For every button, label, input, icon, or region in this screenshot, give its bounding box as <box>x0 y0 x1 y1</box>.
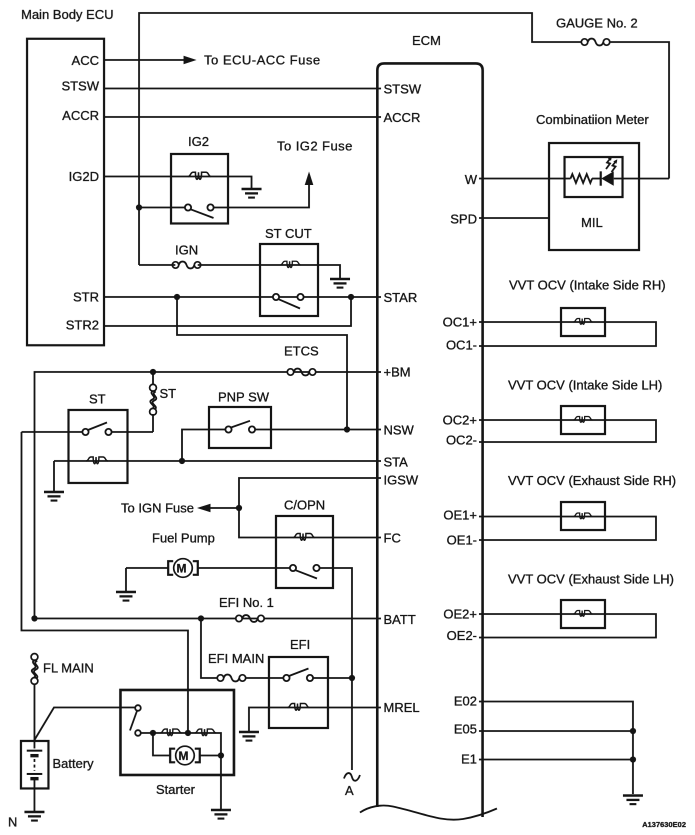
svg-text:A: A <box>345 783 354 798</box>
svg-text:C/OPN: C/OPN <box>284 497 325 512</box>
svg-text:ACC: ACC <box>72 53 99 68</box>
svg-text:STR: STR <box>73 289 99 304</box>
svg-text:GAUGE No. 2: GAUGE No. 2 <box>556 16 638 31</box>
svg-text:IG2: IG2 <box>188 134 209 149</box>
svg-text:VVT OCV (Intake Side LH): VVT OCV (Intake Side LH) <box>508 378 662 393</box>
svg-text:NSW: NSW <box>383 423 414 438</box>
svg-text:OE1-: OE1- <box>447 533 477 548</box>
svg-text:BATT: BATT <box>383 612 415 627</box>
svg-text:Starter: Starter <box>156 782 196 797</box>
svg-text:Battery: Battery <box>52 756 94 771</box>
svg-text:STA: STA <box>383 455 408 470</box>
svg-text:M: M <box>178 749 188 763</box>
svg-text:E1: E1 <box>461 752 477 767</box>
svg-text:Fuel Pump: Fuel Pump <box>152 530 215 545</box>
svg-text:Main Body ECU: Main Body ECU <box>21 7 113 22</box>
svg-text:STR2: STR2 <box>66 317 99 332</box>
svg-text:W: W <box>465 172 478 187</box>
svg-text:ECM: ECM <box>412 33 441 48</box>
svg-text:EFI: EFI <box>290 637 310 652</box>
svg-text:N: N <box>8 814 17 829</box>
svg-text:A137630E02: A137630E02 <box>642 820 686 829</box>
svg-text:OC1+: OC1+ <box>443 315 477 330</box>
svg-text:OE1+: OE1+ <box>443 508 477 523</box>
svg-text:IGN: IGN <box>175 242 198 257</box>
svg-text:FL MAIN: FL MAIN <box>43 660 94 675</box>
svg-text:ACCR: ACCR <box>384 110 421 125</box>
svg-text:VVT OCV (Exhaust Side RH): VVT OCV (Exhaust Side RH) <box>508 473 676 488</box>
svg-text:EFI No. 1: EFI No. 1 <box>219 595 274 610</box>
svg-text:OC2-: OC2- <box>446 433 477 448</box>
svg-text:To IGN Fuse: To IGN Fuse <box>121 500 194 515</box>
svg-text:STAR: STAR <box>384 290 418 305</box>
svg-text:ETCS: ETCS <box>284 343 319 358</box>
svg-text:VVT OCV (Exhaust Side LH): VVT OCV (Exhaust Side LH) <box>508 572 674 587</box>
svg-text:E05: E05 <box>454 722 477 737</box>
svg-text:ST: ST <box>89 391 106 406</box>
svg-text:ST: ST <box>160 386 177 401</box>
svg-text:EFI MAIN: EFI MAIN <box>208 651 264 666</box>
svg-text:SPD: SPD <box>450 212 477 227</box>
svg-text:OE2+: OE2+ <box>443 607 477 622</box>
svg-text:M: M <box>176 561 186 575</box>
svg-text:OC2+: OC2+ <box>443 413 477 428</box>
svg-text:OE2-: OE2- <box>447 628 477 643</box>
svg-text:E02: E02 <box>454 694 477 709</box>
svg-text:MREL: MREL <box>383 700 419 715</box>
svg-text:STSW: STSW <box>61 78 99 93</box>
svg-text:OC1-: OC1- <box>446 338 477 353</box>
svg-text:MIL: MIL <box>581 215 603 230</box>
svg-text:To ECU-ACC Fuse: To ECU-ACC Fuse <box>204 52 321 67</box>
svg-text:ST CUT: ST CUT <box>265 226 312 241</box>
svg-text:VVT OCV (Intake Side RH): VVT OCV (Intake Side RH) <box>509 278 666 293</box>
svg-text:Combinatiion Meter: Combinatiion Meter <box>536 112 649 127</box>
svg-text:IGSW: IGSW <box>383 473 418 488</box>
svg-text:To IG2 Fuse: To IG2 Fuse <box>277 138 353 153</box>
svg-text:IG2D: IG2D <box>69 169 99 184</box>
svg-text:FC: FC <box>383 531 400 546</box>
svg-text:PNP SW: PNP SW <box>218 389 270 404</box>
svg-text:+BM: +BM <box>384 365 411 380</box>
svg-text:STSW: STSW <box>384 82 422 97</box>
svg-text:ACCR: ACCR <box>62 108 99 123</box>
